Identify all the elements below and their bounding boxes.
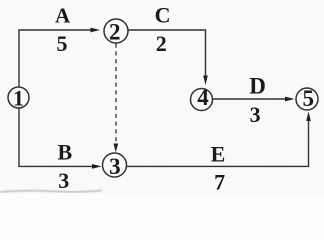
wire E: node3 right then up to node5	[127, 120, 309, 166]
arrowhead into node 3 top	[114, 144, 119, 153]
dashed dummy wire: node2 down to node3	[115, 44, 117, 145]
wire C: node2 right then down to node4	[128, 30, 206, 77]
node 2	[104, 19, 128, 45]
arrowhead into node 3	[92, 164, 102, 169]
node 3	[103, 153, 127, 179]
arrowhead into node 4	[203, 76, 208, 86]
node 1	[8, 85, 29, 110]
scan smudge at bottom edge (artifact)	[0, 190, 102, 192]
arrowhead into node 5	[285, 97, 295, 102]
wire A: node1 up and right to node2	[19, 30, 92, 87]
wire B: node1 down and right to node3	[19, 109, 93, 167]
wire D: node4 right to node5	[213, 98, 287, 100]
arrowhead into node 2	[91, 28, 101, 33]
node 4	[191, 85, 213, 111]
node 5	[296, 86, 318, 111]
arrowhead into node 5 bottom	[306, 112, 311, 122]
